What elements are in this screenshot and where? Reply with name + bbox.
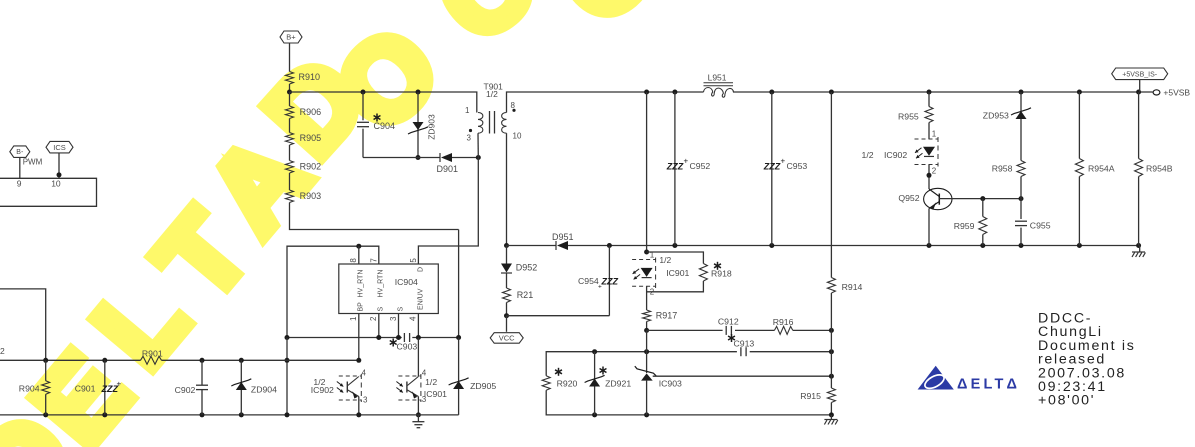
opto-coupler IC902 LED half	[862, 137, 939, 167]
pin label 1 (IC902 LED)	[932, 130, 937, 139]
svg-text:3: 3	[363, 396, 368, 405]
svg-text:HV_RTN: HV_RTN	[378, 270, 385, 298]
zener diode ZD903	[408, 114, 437, 140]
wire HV_RTN drop to bottom-left net	[286, 338, 288, 415]
junction ZD921 bottom	[592, 412, 597, 417]
wire mid rail D951 segment	[507, 245, 557, 247]
junction IC901 emitter ground	[416, 412, 421, 417]
zener diode ZD904	[231, 360, 277, 415]
svg-text:R905: R905	[300, 133, 322, 143]
svg-text:R904: R904	[19, 383, 40, 393]
ground below R915	[824, 415, 837, 425]
wire IC903 to bottom net	[646, 381, 648, 415]
resistor R914	[827, 278, 862, 293]
wire rail to R954A	[1078, 92, 1080, 159]
resistor R959	[954, 217, 987, 235]
ground below IC901	[412, 415, 424, 428]
svg-text:+5VSB: +5VSB	[1163, 88, 1190, 98]
svg-text:C903: C903	[397, 342, 418, 352]
wire R920 bottom	[546, 390, 831, 415]
capacitor C954 (electrolytic)	[578, 246, 618, 316]
wire R958 to node	[1020, 177, 1022, 199]
wire R917 node to IC903	[646, 330, 648, 373]
svg-text:R914: R914	[842, 282, 863, 292]
svg-text:IC903: IC903	[659, 378, 682, 388]
wire R959 stem	[982, 199, 984, 217]
junction IC902 emitter bottom	[356, 412, 361, 417]
capacitor C903	[390, 333, 418, 352]
svg-text:10: 10	[51, 179, 61, 189]
resistor R905	[286, 133, 322, 146]
junction R914 top	[829, 90, 834, 95]
terminal +5VSB	[1153, 88, 1190, 98]
svg-text:10: 10	[513, 132, 522, 141]
wire R905 to R902	[289, 145, 291, 161]
svg-text:R917: R917	[656, 310, 678, 320]
wire S net	[287, 337, 402, 339]
svg-text:8: 8	[349, 258, 358, 263]
wire R954A to mid rail	[1078, 177, 1080, 246]
resistor R917	[643, 310, 678, 322]
wire transformer pin 10 down to mid rail	[506, 133, 508, 245]
wire R914 column from top rail	[830, 92, 832, 278]
svg-text:ZZZ: ZZZ	[666, 162, 684, 172]
svg-text:+: +	[781, 157, 786, 166]
transformer T901 core	[490, 111, 495, 134]
junction R954A top	[1077, 90, 1082, 95]
pin label 2 (IC902 LED)	[932, 167, 937, 176]
wire rail to R955	[928, 92, 930, 107]
Delta logo wordmark	[957, 377, 1020, 393]
svg-text:R902: R902	[300, 161, 322, 171]
capacitor C913	[741, 347, 746, 356]
wire IC901 emitter to ground	[417, 397, 419, 415]
svg-text:3: 3	[467, 134, 472, 143]
svg-text:D: D	[417, 267, 424, 272]
junction pin 2	[376, 335, 381, 340]
junction LED pin2 wire	[927, 173, 932, 178]
wire L951 to +5VSB terminal	[733, 91, 1153, 93]
resistor R920	[542, 368, 577, 390]
svg-text:ZD953: ZD953	[983, 111, 1009, 121]
junction C904 top	[361, 90, 366, 95]
svg-text:C902: C902	[175, 385, 196, 395]
flag B-	[10, 146, 30, 158]
wire R959 to mid rail	[982, 235, 984, 246]
svg-text:D952: D952	[516, 263, 538, 273]
label IC904	[395, 277, 418, 287]
resistor R910	[286, 72, 321, 85]
svg-text:R959: R959	[954, 221, 975, 231]
wire B+ node to transformer pin 1	[290, 92, 477, 113]
svg-text:R918: R918	[711, 268, 732, 278]
junction pin 8 on bus	[356, 244, 361, 249]
wire EN net	[412, 337, 458, 339]
wire IC902 LED to Q952	[928, 165, 930, 190]
wire C904 top stem	[362, 92, 364, 120]
pin label 3 (IC902 transistor)	[363, 396, 368, 405]
wire HV_RTN bus (pins 8,7)	[287, 246, 379, 337]
wire IC903 ref to R915 top node	[653, 375, 832, 377]
resistor R918	[699, 262, 732, 281]
svg-text:HV_RTN: HV_RTN	[358, 270, 365, 298]
wire C912 node to C913 node	[830, 330, 832, 351]
junction pin 3	[396, 335, 401, 340]
asterisk and label C913	[728, 334, 754, 349]
wire R902 to R903	[289, 173, 291, 190]
junction IC901 LED pin1 node	[644, 250, 649, 255]
junction R917 bottom / C912 wire	[644, 328, 649, 333]
svg-text:ZD921: ZD921	[605, 378, 631, 388]
svg-text:1: 1	[465, 106, 470, 115]
wire flag to rail	[1139, 80, 1141, 92]
opto-coupler IC901 transistor half	[396, 374, 447, 402]
wire C955 to mid rail	[1020, 228, 1022, 246]
wire mid rail from D951 to R954B	[568, 245, 1139, 247]
svg-text:8: 8	[511, 101, 516, 110]
junction ZD904 top	[239, 358, 244, 363]
junction transformer pin 3 node	[476, 155, 481, 160]
zener diode ZD905	[449, 338, 497, 415]
resistor R958	[992, 161, 1025, 177]
wire D901 to transformer pin 3 node	[452, 157, 478, 159]
pin number 1	[349, 316, 358, 321]
wire pin10 node to D952	[506, 246, 508, 264]
svg-text:B+: B+	[286, 33, 296, 42]
wire R906 to R905	[289, 119, 291, 133]
transformer T901 primary winding (pins 1-3)	[465, 106, 483, 143]
opto-coupler IC902 transistor half	[311, 374, 362, 402]
junction C953 bottom	[769, 243, 774, 248]
svg-text:R958: R958	[992, 163, 1013, 173]
svg-text:L951: L951	[708, 73, 727, 83]
pin name S (3)	[397, 307, 404, 312]
svg-text:2: 2	[0, 346, 5, 356]
wire R915 to ground	[830, 403, 832, 415]
wire rail to ZD953	[1020, 92, 1022, 111]
svg-text:PWM: PWM	[23, 158, 43, 167]
pin label 4 (IC901 transistor)	[422, 368, 427, 377]
svg-text:C953: C953	[787, 161, 808, 171]
svg-text:ZD904: ZD904	[251, 385, 277, 395]
wire R918 bottom to LED pin 2	[647, 281, 704, 292]
wire IC902 emitter to bottom net	[358, 397, 360, 415]
wire pin 8 stub	[358, 246, 360, 264]
svg-text:+: +	[117, 380, 122, 389]
pin number 2	[369, 316, 378, 321]
pin name S (2)	[378, 307, 385, 312]
wire node to C955	[1020, 199, 1022, 219]
wire R920 top	[546, 352, 737, 376]
svg-text:1/2: 1/2	[862, 150, 874, 160]
wire R954B to mid rail	[1138, 177, 1140, 246]
svg-text:S: S	[397, 307, 404, 312]
wire transformer pin 8 up to +5VSB rail	[507, 92, 704, 113]
IC904 box	[339, 264, 439, 314]
zener diode ZD953	[983, 108, 1031, 121]
opto-coupler IC901 LED half	[632, 258, 689, 289]
wire pin 3 stub	[398, 314, 400, 338]
wire LED feed from top rail	[646, 92, 648, 252]
pin name D	[417, 267, 424, 272]
junction C952 bottom	[672, 243, 677, 248]
svg-text:R915: R915	[800, 391, 821, 401]
junction R959 bottom	[980, 243, 985, 248]
pin name HV_RTN (7)	[378, 270, 385, 298]
junction C953 top	[769, 90, 774, 95]
junction R955 top	[927, 90, 932, 95]
resistor R954A	[1075, 159, 1114, 177]
svg-text:EN/UV: EN/UV	[417, 288, 424, 310]
svg-text:R903: R903	[300, 191, 322, 201]
junction C901 top	[102, 358, 107, 363]
pin name EN/UV	[417, 288, 424, 310]
svg-text:3: 3	[422, 395, 427, 404]
svg-text:B-: B-	[16, 149, 24, 156]
svg-text:C913: C913	[734, 339, 755, 349]
svg-text:+: +	[598, 284, 602, 291]
svg-text:R954B: R954B	[1146, 163, 1173, 173]
wire Q952 base	[939, 198, 1021, 200]
junction R915 bottom	[829, 412, 834, 417]
svg-text:ZD903: ZD903	[427, 114, 437, 140]
svg-text:3: 3	[389, 316, 398, 321]
resistor R903	[286, 190, 322, 203]
flag ICS	[46, 141, 73, 153]
wire R901 to IC902 collector node	[162, 359, 359, 361]
svg-text:R920: R920	[557, 378, 578, 388]
wire C912 to R916	[735, 329, 774, 331]
wire drop column x458.6 down to EN node	[458, 230, 460, 338]
wire R914 to C912 node	[830, 293, 832, 330]
pin number 3	[389, 316, 398, 321]
wire VCC stem	[506, 316, 508, 332]
wire R21 to VCC node	[506, 303, 508, 316]
wire ZD953 to R958	[1020, 119, 1022, 161]
wire transformer pin3 to node	[477, 133, 479, 157]
capacitor C901 (electrolytic)	[75, 360, 122, 415]
pin label 2	[0, 346, 5, 356]
junction R954B top	[1136, 90, 1141, 95]
junction IC903 column crossing	[644, 349, 649, 354]
resistor R915	[800, 388, 835, 402]
svg-text:R910: R910	[299, 72, 321, 82]
svg-text:C901: C901	[75, 383, 96, 393]
svg-text:C904: C904	[374, 121, 396, 131]
label 1/2 (IC901 LED)	[659, 255, 671, 265]
resistor R21	[503, 288, 534, 302]
svg-text:ZD905: ZD905	[470, 381, 496, 391]
pin label 3 (IC901 transistor)	[422, 395, 427, 404]
svg-text:+5VSB_IS-: +5VSB_IS-	[1122, 71, 1157, 78]
svg-text:C912: C912	[718, 316, 739, 326]
svg-text:4: 4	[362, 368, 367, 377]
junction C902 bottom	[200, 412, 205, 417]
junction BP/IC902 collector	[356, 358, 361, 363]
junction HV_RTN drop	[285, 335, 290, 340]
wire B- flag to pin 9	[19, 158, 21, 179]
pin name BP	[358, 302, 365, 312]
resistor R954B	[1135, 159, 1173, 177]
svg-text:S: S	[378, 307, 385, 312]
junction R954B bottom	[1136, 243, 1141, 248]
svg-text:ZZZ: ZZZ	[601, 277, 619, 287]
wire ICS flag to pin 10	[58, 153, 60, 178]
svg-text:D951: D951	[552, 232, 574, 242]
ground at mid rail right end	[1132, 246, 1145, 258]
svg-text:1: 1	[349, 316, 358, 321]
svg-text:R21: R21	[517, 290, 534, 300]
junction R916 right	[829, 328, 834, 333]
junction C901 bottom	[102, 412, 107, 417]
capacitor C904	[357, 114, 395, 131]
junction HV_RTN drop bottom	[285, 412, 290, 417]
junction pin10/D952/D951 node	[504, 243, 509, 248]
pin number 7	[369, 258, 378, 263]
resistor R902	[286, 161, 322, 174]
decorative watermark (not labeled further)	[0, 0, 681, 447]
svg-text:1: 1	[932, 130, 937, 139]
svg-text:4: 4	[409, 316, 418, 321]
junction R959 top	[980, 196, 985, 201]
resistor R906	[286, 106, 322, 119]
transformer T901 secondary winding (pins 8-10)	[502, 101, 522, 141]
flag +5VSB_IS-	[1112, 68, 1168, 80]
pin number 8	[349, 258, 358, 263]
junction VCC node	[504, 313, 509, 318]
svg-text:IC901: IC901	[424, 389, 447, 399]
svg-text:C954: C954	[578, 276, 599, 286]
wire360 from left edge	[0, 359, 141, 361]
flag B+	[280, 31, 302, 43]
pin number 4	[409, 316, 418, 321]
resistor R904	[19, 360, 50, 415]
svg-text:1/2: 1/2	[486, 89, 498, 99]
junction ZD903 bottom	[416, 155, 421, 160]
junction LED feed top	[644, 90, 649, 95]
wire LED pin2 to R917	[646, 286, 648, 310]
junction C913 right	[829, 349, 834, 354]
wire ZD903 stem	[417, 92, 419, 158]
junction R954A bottom	[1077, 243, 1082, 248]
svg-text:9: 9	[17, 179, 22, 189]
junction IC903 ref right / R915 top	[829, 374, 834, 379]
junction R958/C955 node	[1019, 196, 1024, 201]
wire R955 to IC902 LED	[928, 123, 930, 140]
pin name HV_RTN (8)	[358, 270, 365, 298]
svg-text:ZZZ: ZZZ	[763, 162, 781, 172]
junction C902 top	[200, 358, 205, 363]
svg-text:R954A: R954A	[1088, 163, 1115, 173]
svg-text:4: 4	[422, 368, 427, 377]
svg-text:7: 7	[369, 258, 378, 263]
junction C955 bottom	[1019, 243, 1024, 248]
IC box (cut off at left edge) with pins 9 and 10	[0, 178, 97, 206]
wire R903 down and right to drop column	[290, 203, 459, 230]
junction pin 4	[416, 335, 421, 340]
junction stub/R904 top	[43, 358, 48, 363]
wire VCC node to C954 bottom	[507, 315, 610, 317]
svg-text:2: 2	[932, 167, 937, 176]
svg-text:ICS: ICS	[53, 143, 66, 152]
junction IC903 bottom	[644, 412, 649, 417]
label PWM	[23, 158, 43, 167]
junction R910 bottom	[287, 90, 292, 95]
wire pin 4 stub	[417, 314, 419, 338]
wire R917 node to C912	[647, 329, 723, 331]
junction HV_RTN at wire360	[285, 358, 290, 363]
svg-text:Q952: Q952	[898, 193, 919, 203]
diode D951	[552, 232, 574, 250]
wire pin 2 stub	[378, 314, 380, 338]
svg-text:+: +	[684, 157, 689, 166]
junction C952 top	[672, 90, 677, 95]
wire node to R906	[289, 92, 291, 106]
wire pin1 node to R918	[647, 252, 704, 264]
wire pin 5 to transformer node	[418, 158, 478, 265]
pin number 5	[409, 258, 418, 263]
flag VCC	[490, 333, 523, 344]
junction ZD953 top	[1019, 90, 1024, 95]
junction R904 bottom	[43, 412, 48, 417]
svg-text:1/2: 1/2	[659, 255, 671, 265]
wire pin4 node to IC901 collector	[417, 338, 419, 377]
junction Q952 collector bottom	[927, 243, 932, 248]
capacitor C955	[1015, 221, 1051, 231]
wire C904 bottom to D901	[363, 157, 440, 159]
svg-text:BP: BP	[358, 302, 365, 312]
svg-text:R901: R901	[142, 348, 163, 358]
svg-text:VCC: VCC	[499, 334, 515, 343]
pin label 4 (IC902 transistor)	[362, 368, 367, 377]
release stamp text	[1038, 311, 1136, 409]
svg-text:IC904: IC904	[395, 277, 418, 287]
svg-text:D901: D901	[437, 164, 459, 174]
label T901 1/2	[484, 81, 504, 99]
resistor R955	[898, 107, 933, 123]
svg-text:ΔELTΔ: ΔELTΔ	[957, 377, 1020, 393]
shunt regulator IC903	[635, 366, 682, 388]
svg-text:C952: C952	[690, 161, 711, 171]
pin label 1 (IC901 LED)	[650, 251, 655, 260]
junction ZD921 top	[592, 349, 597, 354]
pin label 2 (IC901 LED)	[650, 288, 655, 297]
zener diode ZD921	[585, 352, 632, 415]
svg-text:R955: R955	[898, 112, 919, 122]
junction ZD904 bottom	[239, 412, 244, 417]
wire C904 bottom stem	[362, 129, 364, 158]
wire ref node to R915	[830, 376, 832, 388]
wire R910 to node	[289, 84, 291, 92]
junction EN/R903 drop	[456, 335, 461, 340]
wire Q952 collector to mid rail	[928, 209, 930, 246]
inductor L951	[704, 73, 734, 98]
capacitor C912	[718, 316, 739, 335]
svg-text:IC902: IC902	[311, 385, 334, 395]
junction ZD903 top	[416, 90, 421, 95]
capacitor C952 (electrolytic)	[666, 92, 711, 246]
svg-text:C955: C955	[1030, 221, 1051, 231]
svg-text:R916: R916	[773, 317, 794, 327]
wire C913 node to ref node	[830, 352, 832, 377]
diode D901	[437, 153, 459, 174]
junction on ICS wire	[57, 172, 62, 177]
svg-text:R906: R906	[300, 107, 322, 117]
svg-text:1/2: 1/2	[425, 377, 437, 387]
svg-text:+08'00': +08'00'	[1038, 393, 1095, 409]
pin 2 stub wire from cut-off component	[0, 289, 46, 360]
svg-text:5: 5	[409, 258, 418, 263]
